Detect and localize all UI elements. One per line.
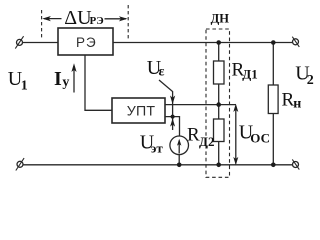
svg-text:у: у	[62, 75, 69, 90]
svg-text:РЭ: РЭ	[76, 35, 97, 50]
node Rn top	[271, 40, 276, 45]
arrowhead U-epsilon up	[170, 118, 175, 126]
svg-text:УПТ: УПТ	[127, 104, 156, 120]
arrow Iy control current	[73, 66, 75, 93]
block RE (регулирующий элемент)	[58, 28, 113, 55]
svg-text:1: 1	[21, 79, 28, 94]
svg-text:Д2: Д2	[199, 134, 214, 149]
node Rn bottom	[271, 163, 276, 168]
node divider bottom	[216, 163, 221, 168]
terminal bottom-left	[16, 158, 24, 170]
arrowhead U_oc down	[233, 157, 238, 165]
wire RD1 to RD2	[218, 84, 220, 119]
arrow right of delta-U label	[105, 18, 127, 20]
node source bottom	[177, 163, 182, 168]
resistor Rn load	[268, 85, 278, 114]
svg-text:РЭ: РЭ	[90, 15, 104, 27]
wire top rail to Rn	[272, 43, 274, 86]
terminal bottom-right	[292, 159, 299, 169]
bottom rail wire	[23, 164, 293, 166]
wire Rn to bottom rail	[272, 114, 274, 165]
svg-text:эт: эт	[151, 141, 164, 156]
dashed extension line right of delta-U	[127, 5, 129, 41]
arrowhead Iy up	[71, 63, 76, 72]
arrowhead emf up inside source	[177, 139, 181, 146]
resistor RD2	[214, 119, 225, 142]
arrow left of delta-U label	[44, 18, 62, 20]
dashed box DN (делитель напряжения)	[206, 29, 230, 177]
reference source U_et circle	[170, 136, 189, 155]
svg-text:I: I	[54, 68, 62, 90]
svg-text:ε: ε	[159, 65, 165, 80]
svg-text:ОС: ОС	[250, 131, 270, 146]
arrowhead U_oc up	[233, 104, 238, 112]
terminal output top-right	[292, 37, 299, 47]
emf arrow inside source	[178, 141, 180, 154]
wire input to RE	[23, 42, 59, 44]
terminal input top-left	[15, 36, 23, 48]
svg-text:ДН: ДН	[211, 11, 230, 25]
svg-text:Д1: Д1	[242, 67, 257, 82]
svg-text:2: 2	[307, 73, 314, 88]
wire RE output to right terminal	[113, 42, 293, 44]
arrowhead delta-U right	[119, 16, 128, 21]
arrowhead U-epsilon down	[170, 96, 175, 105]
node divider tap	[216, 102, 221, 107]
resistor RD1	[214, 61, 225, 84]
arrowheads	[42, 16, 238, 165]
svg-text:ΔU: ΔU	[64, 7, 92, 29]
dashed extension line left of delta-U	[41, 10, 43, 40]
pointer line for U-epsilon label	[159, 80, 173, 130]
wire source to bottom rail	[178, 155, 180, 165]
wire top rail to RD1	[218, 43, 220, 62]
wire UPT upper input from divider tap	[165, 104, 236, 106]
node divider top	[216, 40, 221, 45]
wire UPT lower input from reference source	[165, 117, 180, 136]
junction dots	[171, 40, 276, 167]
node U-epsilon lower contact	[171, 115, 175, 119]
wire RD2 to bottom rail	[218, 142, 220, 165]
wire RE control (from UPT output up to RE)	[85, 55, 112, 110]
svg-text:н: н	[293, 96, 301, 111]
dimension line U_oc	[235, 106, 237, 164]
block UPT (усилитель постоянного тока)	[112, 98, 165, 123]
arrowhead delta-U left	[42, 16, 51, 21]
